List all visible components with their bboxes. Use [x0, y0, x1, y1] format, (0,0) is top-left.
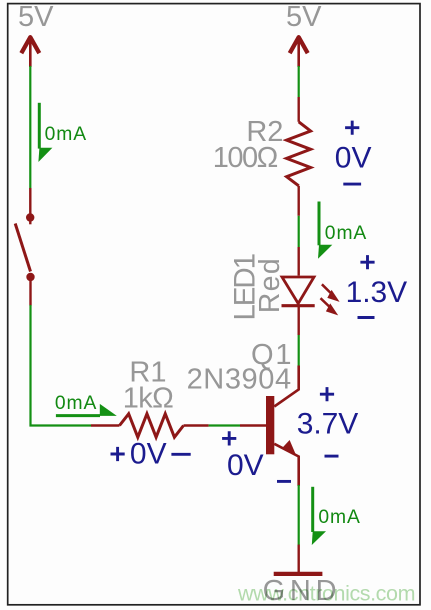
svg-text:0mA: 0mA [325, 223, 367, 244]
switch top terminal dot [26, 213, 34, 221]
current annotation 0mA (switch branch) [38, 103, 86, 162]
svg-text:5V: 5V [286, 1, 322, 33]
svg-text:1kΩ: 1kΩ [123, 383, 174, 415]
R2 top pin [298, 97, 300, 122]
svg-text:0V: 0V [227, 449, 264, 482]
voltage annotation VBE: + 0V − [222, 431, 291, 482]
LED1 cathode bar [282, 304, 315, 307]
current annotation 0mA (into R1) [55, 393, 117, 416]
Q1 base bar [266, 396, 274, 454]
wire: LED1 cathode to Q1 collector [298, 335, 300, 366]
wire: right 5V supply to R2 [298, 66, 300, 97]
svg-text:0mA: 0mA [45, 124, 87, 145]
switch top pin [29, 188, 31, 224]
LED1 light emission arrows [321, 284, 340, 315]
svg-text:3.7V: 3.7V [297, 407, 359, 440]
voltage annotation across LED1: + 1.3V − [346, 255, 408, 317]
ground bar [274, 572, 323, 576]
R2 zigzag body [287, 122, 311, 186]
voltage annotation VCE: + 3.7V − [297, 387, 359, 456]
svg-text:0V: 0V [335, 142, 372, 175]
switch (SPST, open) [15, 188, 34, 306]
Q1 emitter pin [274, 444, 298, 486]
transistor Q1 (NPN 2N3904) [240, 366, 299, 487]
svg-text:2N3904: 2N3904 [187, 363, 292, 395]
LED1 anode pin [298, 247, 300, 276]
svg-text:100Ω: 100Ω [213, 142, 278, 174]
ground pin [298, 545, 300, 572]
R1 zigzag body [120, 414, 184, 437]
svg-text:Red: Red [254, 258, 286, 313]
Q1 collector pin [274, 366, 298, 407]
LED LED1 [282, 247, 315, 335]
R1 left pin [91, 424, 120, 426]
power +5V symbol (right) [290, 37, 308, 68]
R1 right pin [184, 424, 209, 426]
R2 bottom pin [298, 186, 300, 216]
LED1 cathode pin [298, 307, 300, 335]
wire: switch down and right to R1 [31, 305, 92, 426]
power +5V symbol (left) [21, 37, 39, 68]
svg-text:0mA: 0mA [55, 393, 97, 414]
svg-text:5V: 5V [18, 1, 54, 33]
svg-text:0V: 0V [130, 437, 167, 470]
svg-text:0mA: 0mA [318, 507, 360, 528]
ground [274, 545, 323, 574]
wire: R2 to LED1 anode [298, 216, 300, 247]
voltage annotation across R1: + 0V − [111, 437, 191, 470]
resistor R1 [91, 414, 209, 437]
switch bottom pin [29, 277, 31, 306]
current annotation 0mA (emitter to ground) [312, 487, 360, 545]
Q1 emitter arrowhead [282, 440, 296, 455]
wire: left 5V supply to switch [29, 66, 31, 189]
voltage annotation across R2: + 0V − [335, 121, 372, 185]
svg-text:1.3V: 1.3V [346, 276, 408, 309]
resistor R2 [287, 97, 311, 216]
Q1 base pin [240, 424, 266, 426]
wire: Q1 emitter to ground [298, 485, 300, 545]
wire: R1 to Q1 base [209, 424, 240, 426]
switch blade (open) [15, 224, 30, 272]
LED1 triangle [282, 277, 314, 304]
svg-text:www.cntronics.com: www.cntronics.com [237, 581, 416, 605]
current annotation 0mA (R2 to LED1) [318, 202, 366, 259]
switch bottom terminal dot [26, 273, 34, 281]
